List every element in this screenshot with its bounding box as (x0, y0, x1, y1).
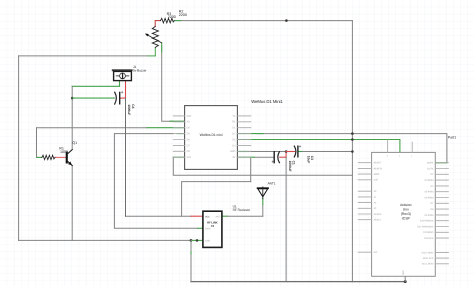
svg-text:Uno: Uno (403, 208, 409, 212)
capacitor C4 curved plate (115, 92, 117, 104)
svg-text:Arduino: Arduino (400, 203, 412, 207)
svg-text:RESET: RESET (374, 162, 382, 165)
buzzer J1 center bar (122, 73, 123, 79)
wire C3 row to right bus (303, 151, 353, 153)
wire green WeMos D3 to Arduino top pin (237, 140, 400, 153)
wire green pot bottom lead (154, 47, 156, 56)
WeMos right pin labels (230, 115, 236, 159)
WeMos left pin stubs (173, 116, 184, 157)
Arduino left pin stubs (358, 163, 371, 253)
wire red C4 lead (120, 97, 126, 99)
wire collector vertical x=72.2 (71, 86, 73, 149)
transistor Q1 collector lead (68, 150, 72, 154)
Arduino top pin numbers (387, 155, 414, 158)
svg-text:SCL1 MOSI: SCL1 MOSI (422, 263, 434, 266)
svg-text:RST: RST (187, 115, 192, 118)
antenna ANT1 triangle (258, 189, 268, 197)
wire 3V3 under-board run to antenna bus (173, 157, 352, 175)
wire D0 horizontal from inner-left vertical to WeMos (37, 127, 148, 129)
wire green R1 left lead (37, 156, 42, 158)
svg-text:A4/SDA: A4/SDA (374, 213, 382, 216)
wire green segment into Arduino D0/RX (435, 162, 447, 164)
svg-text:AREF: AREF (374, 173, 380, 176)
svg-text:5v Buzzer: 5v Buzzer (133, 68, 147, 72)
Arduino right pin stubs (435, 163, 448, 264)
capacitor C3 curved plate (294, 146, 296, 157)
svg-text:3V3: 3V3 (187, 156, 192, 159)
svg-text:2200: 2200 (168, 15, 176, 19)
label C4 value rotated (127, 104, 135, 115)
wire vertical x=250.9 from WeMos 5V row down to ANT line (250, 157, 252, 181)
wire green segment at D5 pin (177, 133, 185, 135)
wire green segment at A0 pin (170, 120, 185, 122)
wire return horizontal y=181.5 (182, 182, 251, 217)
svg-text:GND: GND (205, 240, 210, 243)
WeMos left pin labels (187, 115, 192, 159)
resistor R3 (161, 18, 175, 23)
svg-text:D11 PWM/MOSI: D11 PWM/MOSI (417, 225, 433, 228)
IC RF LINK TX box (203, 211, 222, 247)
capacitor C3 plus sign (299, 146, 301, 148)
node dot bottom wire end at Arduino GND stub (404, 280, 407, 283)
wire red buzzer right lead down (125, 81, 127, 99)
wire red RF VCC segment (191, 215, 203, 217)
capacitor C3 straight plate (297, 146, 299, 157)
svg-text:D12/MISO: D12/MISO (423, 231, 433, 234)
wire bottom ground bus to Arduino GND (191, 281, 405, 283)
wire inner-left vertical down to R1 (37, 128, 42, 158)
wire WeMos D5 to RF DATA staircase (114, 134, 197, 229)
wire ground vertical x=191 (190, 240, 192, 281)
svg-text:D9 PWM: D9 PWM (425, 214, 434, 217)
svg-text:ANT1: ANT1 (268, 182, 276, 186)
wire Arduino GND stub (404, 276, 406, 281)
potentiometer R2 body (152, 27, 158, 48)
wire bottom ground horizontal to RF junction (19, 239, 191, 241)
Arduino right pin labels (417, 162, 434, 266)
svg-text:D10 PWM/SS: D10 PWM/SS (420, 220, 434, 223)
svg-text:RX: RX (232, 121, 236, 124)
wire green to C4 curved plate (72, 97, 114, 99)
node dot where C3 row meets right bus (351, 150, 354, 153)
wire green antenna mast segment (262, 199, 264, 205)
wire vertical x=286 down to bottom ground (285, 157, 287, 281)
svg-text:(Rev3): (Rev3) (401, 212, 411, 216)
wire green RF ANT segment (222, 215, 228, 217)
svg-text:1000uF: 1000uF (288, 161, 292, 172)
wire top net from R3 to right vertical (174, 20, 352, 22)
antenna ANT1 top bar (258, 187, 268, 189)
wire green buzzer to collector vertical (72, 85, 119, 87)
svg-text:N/C: N/C (374, 251, 378, 254)
svg-text:A5/SCL: A5/SCL (374, 219, 382, 222)
capacitor C1 curved plate (278, 152, 280, 163)
buzzer J1 piezo circle (120, 73, 126, 79)
svg-text:WeMos D1 Mini1: WeMos D1 Mini1 (251, 99, 283, 104)
wire long right vertical bus x=352 (351, 21, 353, 282)
wire pot wiper vertical to WeMos A0 (162, 45, 174, 121)
svg-text:WeMos D1 mini: WeMos D1 mini (200, 133, 223, 137)
node dot RF GND pin end (196, 239, 199, 242)
wire antenna mast lower (262, 205, 264, 217)
svg-text:SDA1 SCK: SDA1 SCK (423, 257, 434, 260)
wire green WeMos 3V3 pin segment (173, 156, 184, 158)
svg-text:2200: 2200 (179, 13, 187, 17)
svg-text:VCC: VCC (205, 215, 210, 218)
wire left outer loop: top horizontal to potentiometer bottom (19, 55, 148, 57)
transistor Q1 emitter arrowhead (68, 161, 72, 165)
buzzer J1 top bar (112, 69, 133, 71)
svg-text:D1/TX: D1/TX (427, 167, 434, 170)
wire red vertical segment between C3 row and C1 row (285, 152, 287, 158)
wire green segment right of C3 (298, 151, 302, 153)
wire ANT horizontal to mast (228, 215, 263, 217)
label C3 value rotated (307, 156, 315, 163)
wire buzzer left lead down (119, 81, 121, 87)
svg-text:D3 PWM: D3 PWM (425, 179, 434, 182)
svg-text:D6 PWM: D6 PWM (425, 196, 434, 199)
svg-text:SCK1 MISO: SCK1 MISO (422, 251, 434, 254)
node dot C4 tap (71, 97, 74, 100)
WeMos right pin stubs (237, 116, 250, 157)
node bendpoint dot on top wire (285, 19, 288, 22)
wire left outer vertical x=18.6 (18, 56, 20, 241)
node dot D3 wire crossing right bus (351, 138, 354, 141)
svg-text:TX: TX (211, 224, 215, 228)
wire green wiper top segment (161, 43, 163, 52)
wire WeMos D2 to Arduino D0/RX (256, 134, 447, 163)
node dot D2 wire crossing right bus (351, 132, 354, 135)
node dot at C3 red lead (285, 150, 288, 153)
svg-text:RESET2: RESET2 (374, 167, 383, 170)
buzzer J1 body (114, 71, 132, 80)
Arduino left pin labels (374, 162, 383, 255)
svg-text:1000uF: 1000uF (127, 104, 131, 115)
wire green segment at GND pin (237, 151, 248, 153)
svg-text:5V: 5V (232, 156, 235, 159)
svg-text:ICSP: ICSP (402, 217, 411, 221)
node green tick on ground vertical (190, 252, 192, 254)
wire vertical x=125.5 down to VCC feed (125, 98, 127, 216)
potentiometer R2 wiper arm (148, 35, 162, 43)
wire green to RF GND pin (191, 239, 203, 241)
capacitor C1 plus sign (272, 161, 274, 163)
Arduino top pin stubs (388, 140, 413, 153)
svg-text:D0/RX: D0/RX (427, 162, 434, 165)
wire red C3 lead (286, 151, 295, 153)
Arduino bottom GND label rotated (402, 270, 405, 275)
capacitor C4 straight plate (119, 92, 121, 103)
transistor Q1 base bar (66, 152, 68, 164)
resistor R1 (42, 155, 55, 159)
label C1 value rotated (288, 161, 296, 172)
svg-text:ANT: ANT (216, 215, 221, 218)
IC WeMos D1 mini box (185, 106, 238, 170)
antenna ANT1 mast (262, 187, 264, 199)
wire green segment at 5V pin (237, 156, 254, 158)
svg-text:GND: GND (402, 270, 405, 275)
svg-text:RF Reciever: RF Reciever (233, 208, 251, 212)
svg-text:GND: GND (230, 150, 236, 153)
svg-text:10uF: 10uF (307, 156, 311, 163)
capacitor C1 straight plate (273, 152, 275, 163)
node dot ground junction left of RF GND (190, 239, 193, 242)
potentiometer R2 wiper arrowhead (145, 34, 149, 37)
IC Arduino Uno box (372, 152, 436, 276)
wire WeMos GND row to C3 (249, 151, 287, 153)
svg-text:Part1: Part1 (448, 135, 456, 139)
wire green segment at RF DATA pin (198, 227, 204, 229)
wire green segment at D2 pin (237, 133, 263, 135)
buzzer J1 left dash (116, 75, 119, 77)
capacitor C4 plus sign (121, 91, 123, 93)
svg-text:DATA: DATA (205, 227, 211, 230)
svg-text:Q1: Q1 (72, 141, 77, 145)
wire green stub right of R3 (174, 20, 181, 22)
wire red pot top to R3 (155, 21, 160, 27)
wire WeMos 5V row to C1 (254, 156, 274, 158)
transistor Q1 emitter lead (68, 162, 72, 166)
wire emitter vertical down to ground (71, 166, 73, 241)
svg-text:1000: 1000 (60, 150, 68, 154)
buzzer J1 right dash (126, 75, 129, 77)
svg-text:ioref: ioref (374, 179, 379, 182)
label Arduino center (400, 203, 412, 221)
svg-text:D13/SCK: D13/SCK (424, 237, 434, 240)
wire RF VCC feed horizontal (126, 215, 191, 217)
svg-text:D5 PWM: D5 PWM (425, 191, 434, 194)
svg-text:TX: TX (232, 115, 235, 118)
wire D0 green segment near WeMos pin (147, 127, 185, 129)
wire green segment near pot bottom (148, 55, 155, 57)
wire red R1 to Q1 base (55, 156, 66, 158)
wire red C1 lead to vertical (280, 156, 286, 158)
